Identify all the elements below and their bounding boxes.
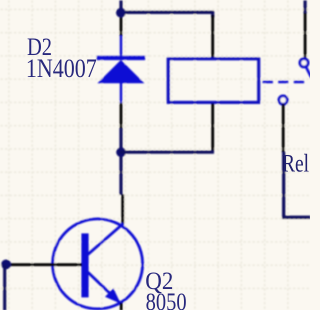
transistor Q2 base bar <box>81 233 88 297</box>
relay contact lower circle <box>279 96 287 104</box>
pin: transistor Q2 base pin (black) <box>6 263 82 266</box>
relay contact pivot circle <box>300 59 308 67</box>
junction: middle node <box>116 147 126 157</box>
wire: from diode bottom pin through junction down to collector pin <box>119 128 122 195</box>
relay coil rectangle <box>168 59 258 103</box>
pin: diode D2 bottom pin (black) <box>120 103 123 128</box>
relay actuation dashed link <box>263 81 305 84</box>
junction: top node <box>116 8 126 18</box>
pin: diode D2 top pin (black) <box>120 15 123 36</box>
wire: top vertical into junction <box>119 0 122 14</box>
pin: relay coil bottom pin (black) <box>211 103 214 151</box>
wire: from contact pin down and to right edge <box>284 152 311 217</box>
transistor Q2 emitter stroke <box>88 272 120 303</box>
wire: from base junction to bottom edge <box>3 265 6 310</box>
pin: transistor Q2 collector pin (black) <box>121 194 124 224</box>
diode D2 cathode bar <box>97 56 145 60</box>
svg-text:Rel: Rel <box>282 149 309 177</box>
pin: relay contact common pin (black) <box>304 13 307 59</box>
svg-text:1N4007: 1N4007 <box>26 55 97 83</box>
pin: transistor Q2 emitter pin stub (black) <box>120 303 123 310</box>
wire: horizontal from middle junction to relay bottom pin <box>120 150 214 153</box>
pin: relay contact lower pin (black) <box>282 104 285 152</box>
diode D2 lower lead (blue) <box>120 82 123 103</box>
pin: relay coil top pin (black) <box>211 15 214 59</box>
diode D2 triangle <box>97 60 144 83</box>
svg-text:8050: 8050 <box>146 288 187 310</box>
relay contact arm <box>306 66 312 78</box>
junction: base node <box>1 260 11 270</box>
transistor Q2 body circle <box>53 219 143 309</box>
transistor Q2 collector stroke <box>88 223 124 254</box>
diode D2 upper lead (blue) <box>120 35 123 56</box>
wire: horizontal from junction to relay top pin <box>120 11 214 14</box>
wire: right vertical entering from top <box>304 0 307 13</box>
transistor Q2 emitter arrow <box>105 288 121 303</box>
wire: short corner stub down at relay top pin <box>211 11 214 17</box>
